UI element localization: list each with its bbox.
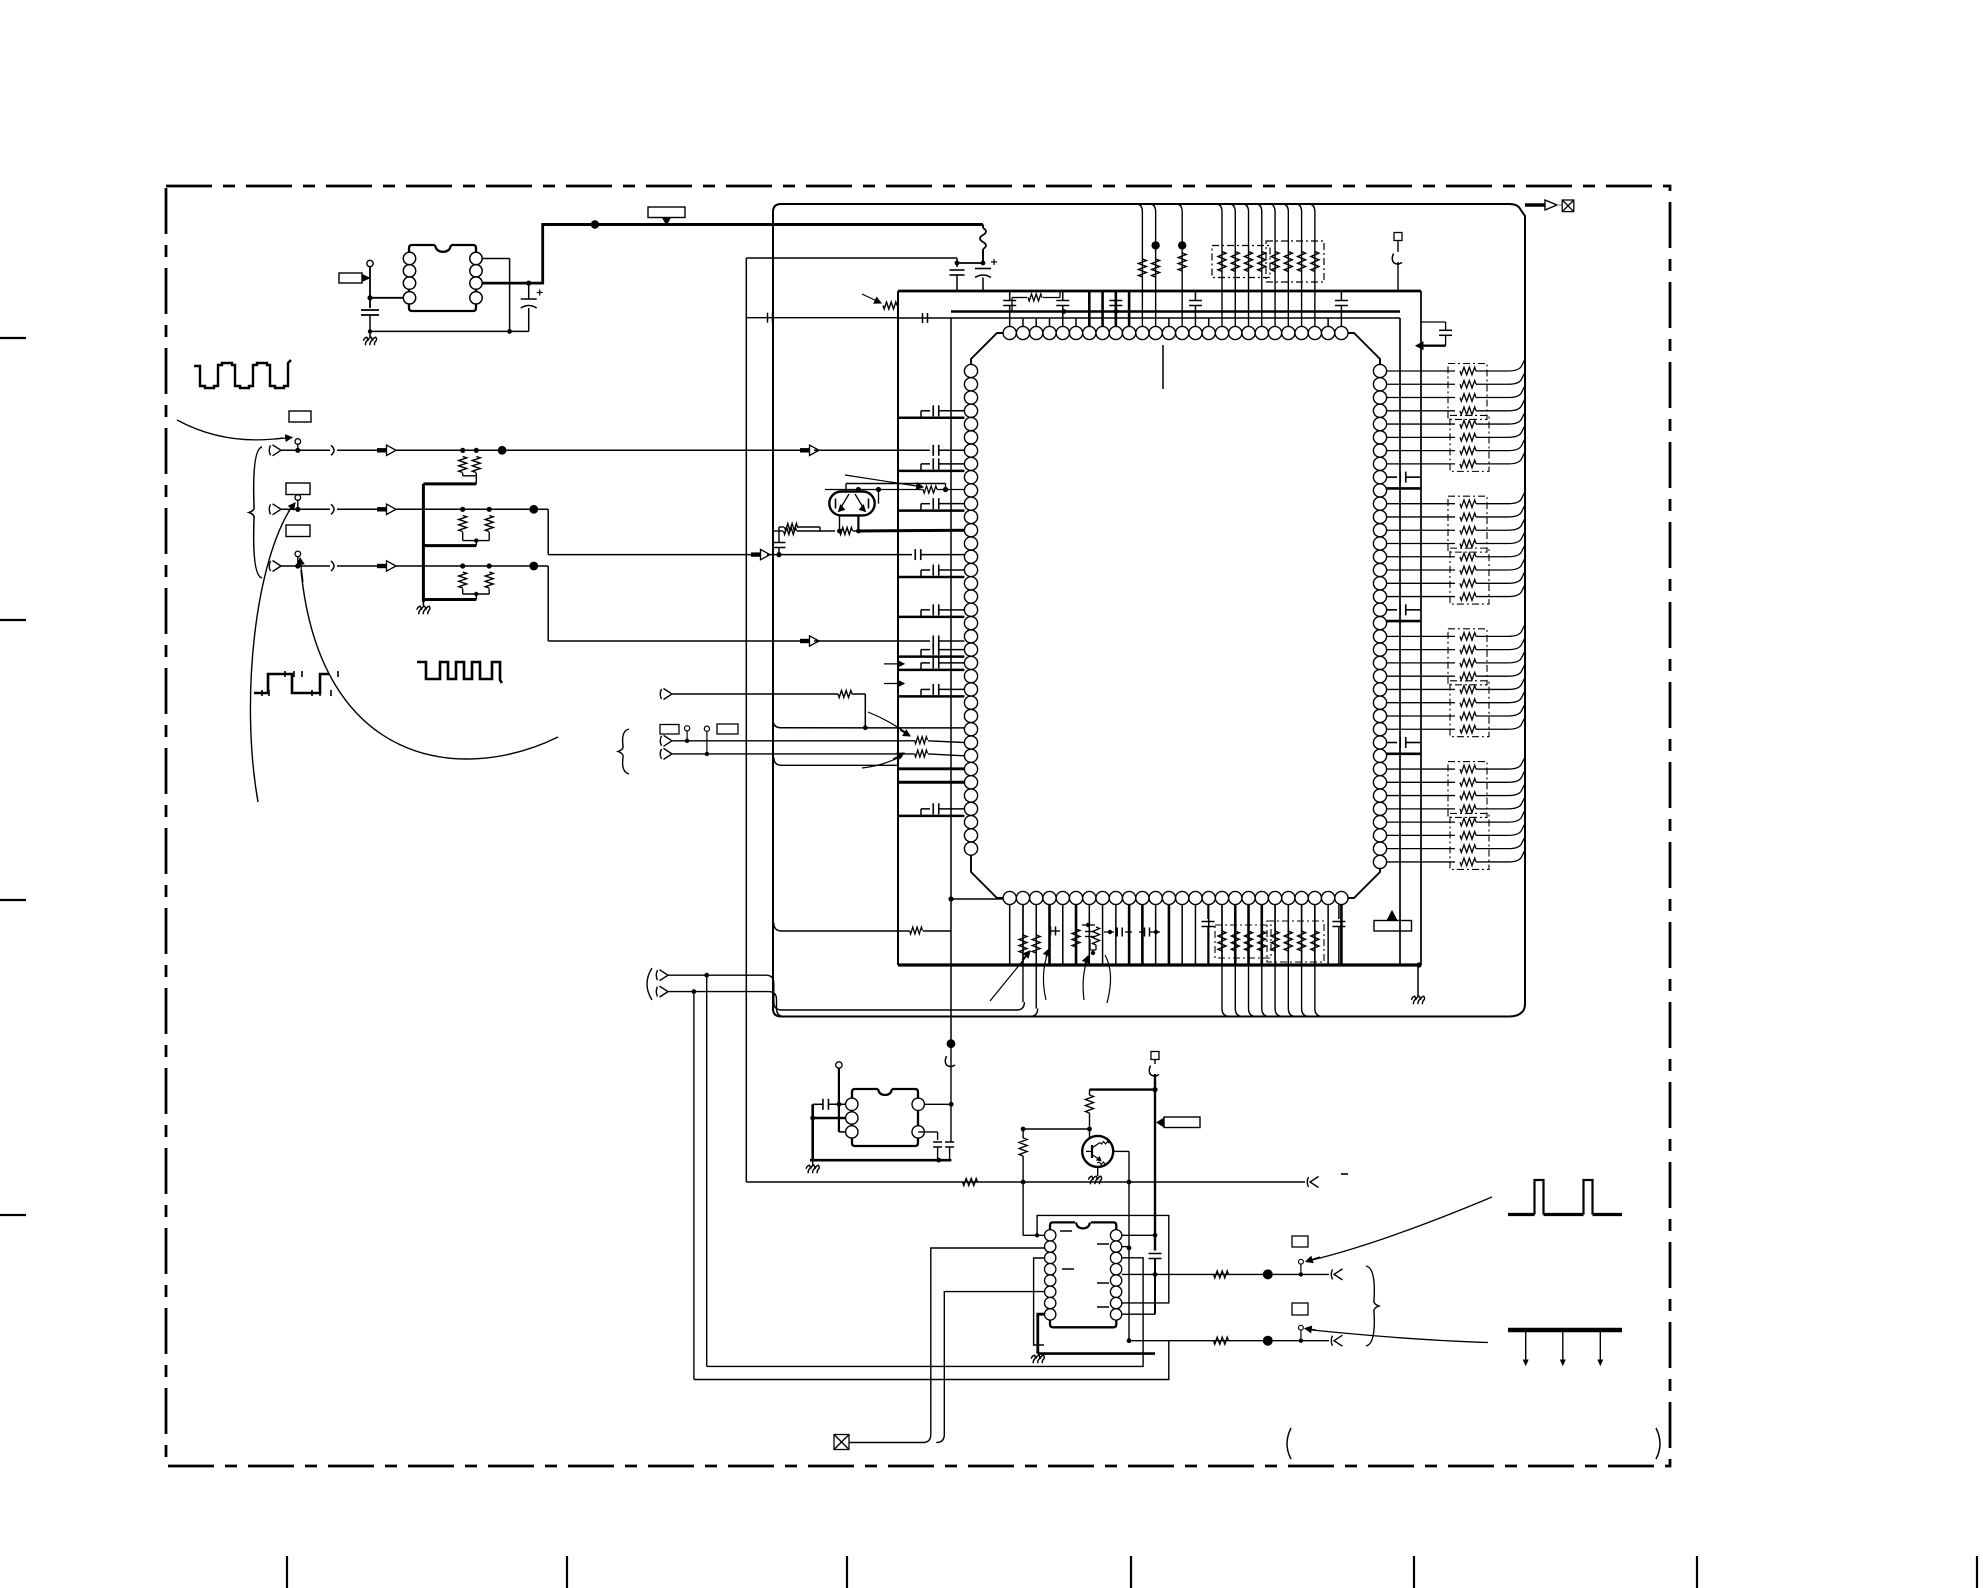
rail extension to x746 with capacitor <box>746 317 898 319</box>
label box J602 <box>286 483 310 495</box>
row3 wire into chip <box>800 639 810 643</box>
pull resistors on drop wires <box>1138 259 1146 277</box>
X601 pins left <box>403 252 415 264</box>
pin3L pin4L stub wires <box>1034 1258 1045 1345</box>
row2 termination resistors <box>459 516 467 532</box>
rows y740 y753 with resistors <box>664 735 673 746</box>
long control wire y1182 <box>746 1181 1305 1183</box>
X603 ground rail <box>810 1159 951 1162</box>
resistor network RN603 box bottom <box>1215 925 1271 958</box>
bias resistor R640 <box>1089 1090 1091 1095</box>
junction dots on drop wires <box>1151 241 1159 249</box>
junction dots power entry <box>981 261 986 266</box>
leader arrows to rows resistors <box>868 712 908 734</box>
X603 pin2 wire <box>813 1117 846 1119</box>
registration tick marks bottom edge <box>286 1556 288 1588</box>
ferrite bead L602 <box>982 225 984 229</box>
IC602 inverting marks <box>1060 1230 1072 1232</box>
ground stub at ring bottom right <box>1417 965 1419 996</box>
shield loop wire (rounded rectangle) <box>773 204 1525 1017</box>
IC602 pins right <box>1110 1230 1121 1241</box>
row out 2 y1340 <box>1129 1340 1301 1342</box>
IC602 right pin wires <box>1122 1234 1155 1236</box>
bus ring left vertical <box>897 291 899 965</box>
thick stubs lower left pins <box>898 767 964 770</box>
IC602 pins left <box>1045 1230 1056 1241</box>
bus ring right verticals <box>1399 318 1401 965</box>
row out 1 y1274 <box>1122 1273 1301 1275</box>
capacitor C601 <box>361 309 379 311</box>
terminal square top <box>1151 1052 1159 1060</box>
label box with up arrow bottom right <box>1388 911 1397 920</box>
wires y899 y920 lower left <box>948 896 953 901</box>
wire y258 rail <box>746 257 957 259</box>
base feed resistor R641 <box>1023 1128 1089 1130</box>
row3 termination resistors <box>459 572 467 588</box>
bus vertical x951 <box>950 318 952 1043</box>
X603 pins left <box>846 1098 858 1110</box>
row3 wire jog down <box>547 566 549 641</box>
resistor network RN601 box <box>1212 246 1270 278</box>
wire X601 pin3 output (thick) <box>482 282 543 285</box>
collector wire down <box>1128 1151 1130 1340</box>
registration tick marks left edge <box>0 337 26 339</box>
resistor network RN602 box <box>1266 241 1324 282</box>
X601 pins right <box>470 252 482 264</box>
input row 3 connector <box>295 551 301 557</box>
row2 wire into chip <box>751 552 761 556</box>
resistor R630 <box>1072 929 1080 947</box>
label box J603 <box>286 525 310 537</box>
resistor network RN604 box bottom <box>1267 921 1324 962</box>
termination ground bus <box>422 484 425 602</box>
small arrows at pins 22 24 <box>884 663 904 665</box>
bottom return wire y1379 <box>694 1341 1169 1380</box>
series cap C630 <box>1050 930 1060 932</box>
closing parentheses bottom <box>1287 1428 1291 1459</box>
antenna stub terminal top right <box>1394 233 1402 241</box>
input row 2 connector <box>295 495 301 501</box>
drop wires with network resistors to pins 16-23 <box>1216 204 1222 326</box>
X603 pin1R wire to bus <box>924 1103 951 1105</box>
capacitor C603 <box>950 269 965 271</box>
IC601 pins left column <box>964 364 977 377</box>
brace mid-left connector group <box>618 729 629 774</box>
resistor array boxes right <box>1448 364 1487 420</box>
branch cap C620 above row2 <box>773 542 786 544</box>
ground <box>368 329 372 333</box>
brace right rows <box>1366 1266 1379 1346</box>
label box TP601 with arrow <box>339 273 362 283</box>
IC601 pins right column <box>1373 364 1386 377</box>
X601 input terminal <box>367 260 373 266</box>
resistor R611 near pin row <box>883 302 897 309</box>
IC602 ground (thick) <box>1038 1314 1045 1353</box>
X603 load caps <box>918 1131 937 1133</box>
capacitor C634 bottom right <box>1338 905 1340 919</box>
leader to comb waveform <box>1307 1330 1488 1343</box>
resistor R612 on mid rail <box>1012 297 1027 299</box>
signal flow arrow row1 <box>377 448 387 452</box>
vertical bus x746 <box>745 258 747 1182</box>
X603 body (oscillator) <box>852 1089 918 1146</box>
decoupling capacitors above top pins <box>1009 291 1011 301</box>
wire A steps down to bus <box>668 974 766 976</box>
lower-left connectors <box>660 970 669 981</box>
electrolytic C604 <box>975 268 991 270</box>
row1 video wire into chip <box>800 448 810 452</box>
termination resistors R601 R602 <box>459 457 467 473</box>
transistor Q601 (digital) <box>1082 1136 1113 1167</box>
waveform sketch burst <box>417 662 502 683</box>
leader from pulse waveform <box>1312 1197 1492 1260</box>
IC X601 body (8-pin oscillator) <box>409 245 476 311</box>
waveform sketch sync <box>254 674 329 693</box>
row y727 wire to pin27 <box>773 720 964 728</box>
lower-left group brace <box>647 968 652 1000</box>
label box with left arrow <box>1157 1118 1164 1127</box>
series caps C631 C632 <box>1116 928 1118 937</box>
leader curve waveform2 to row2 jack <box>250 505 293 802</box>
supply node wires (thick) <box>1152 1087 1157 1092</box>
supply cap C641 <box>1149 1253 1162 1255</box>
capacitor C633 bottom <box>1207 905 1209 919</box>
long vertical wires to bottom circuits <box>706 975 708 1366</box>
capacitor C610 top right <box>1420 321 1446 323</box>
bottom pin stub wires <box>1009 905 1011 965</box>
top pin stub wires <box>1022 318 1024 326</box>
wrap wire rect A <box>1023 1215 1169 1303</box>
left pin decoupling caps and stubs <box>921 410 930 412</box>
waveform sketch (composite video) <box>194 360 291 388</box>
bus ring second rail <box>898 317 1400 319</box>
label box L601 with down arrow <box>648 207 685 218</box>
X603 control terminal <box>836 1062 842 1068</box>
brace group inputs <box>249 447 262 578</box>
IC601 body outline <box>971 333 1380 898</box>
wire X601 pin1 right <box>482 258 509 260</box>
capacitor C640 <box>822 1099 824 1110</box>
pulse waveform sketch <box>1508 1213 1622 1216</box>
bus x951 down to X603 <box>950 1043 952 1142</box>
thick rail y531 to pin12 <box>773 530 783 532</box>
terminal X (crossed box) <box>1562 200 1574 212</box>
wire to Xbox vertical 2 <box>936 1292 1044 1443</box>
peel wire y765 from shield to thick stub <box>774 757 898 765</box>
bus ring bottom (thick) <box>898 963 1421 966</box>
label boxes right rows <box>1292 1236 1308 1247</box>
right side thick stubs <box>1387 487 1421 490</box>
crystal feedback wires <box>845 484 847 492</box>
arrow to shield terminal <box>1525 203 1545 206</box>
terminal X bottom <box>834 1435 849 1450</box>
bus ring top (thick) <box>898 290 1421 293</box>
X603 pins right <box>912 1098 924 1110</box>
IC602 body <box>1050 1222 1116 1327</box>
emitter to ground <box>1097 1167 1099 1176</box>
pulldown resistors bottom pins 1 2 <box>1022 905 1024 1002</box>
wire to Xbox vertical 1 <box>923 1248 1045 1434</box>
label box J601 <box>289 411 311 422</box>
RC cluster <box>1086 923 1090 927</box>
page border (dash-dot frame) <box>166 186 1670 1466</box>
leader curve waveform3 to row3 jack <box>301 570 558 759</box>
leader arrow to VIDEO IN jack <box>177 420 283 440</box>
right side bus merge wires to resistor arrays <box>1387 370 1455 372</box>
leader lines to bottom components <box>990 953 1029 1001</box>
boxes mid-left connectors <box>660 725 679 735</box>
bus ring power rail (thick) <box>951 310 1400 312</box>
power rail to top bus (thick) <box>541 223 983 226</box>
electrolytic capacitor C602 <box>528 283 530 299</box>
crystal bottom leads to thick rail <box>839 515 841 531</box>
row2 wire jog down to chip <box>547 509 549 554</box>
bottom network resistors and bend-down wires <box>1221 905 1223 965</box>
input row 1 (video) connector <box>295 439 301 445</box>
bottom rail of oscillator <box>370 330 529 332</box>
drop wires from shield rail to pins 10 11 13 <box>1136 204 1142 326</box>
IC601 pins top row <box>1003 326 1016 339</box>
IC601 pins bottom row <box>1003 891 1016 904</box>
IC601 pin1 index mark <box>1162 345 1164 389</box>
wire B steps down to shield bottom <box>668 991 769 993</box>
row y694 with resistor <box>672 693 838 695</box>
comb waveform sketch <box>1508 1328 1622 1333</box>
crystal filter X602 (SAW) <box>829 492 874 516</box>
wire row1 to chip <box>396 449 800 451</box>
right side mid capacitors <box>1387 476 1397 478</box>
capacitor on second rail <box>922 313 924 323</box>
